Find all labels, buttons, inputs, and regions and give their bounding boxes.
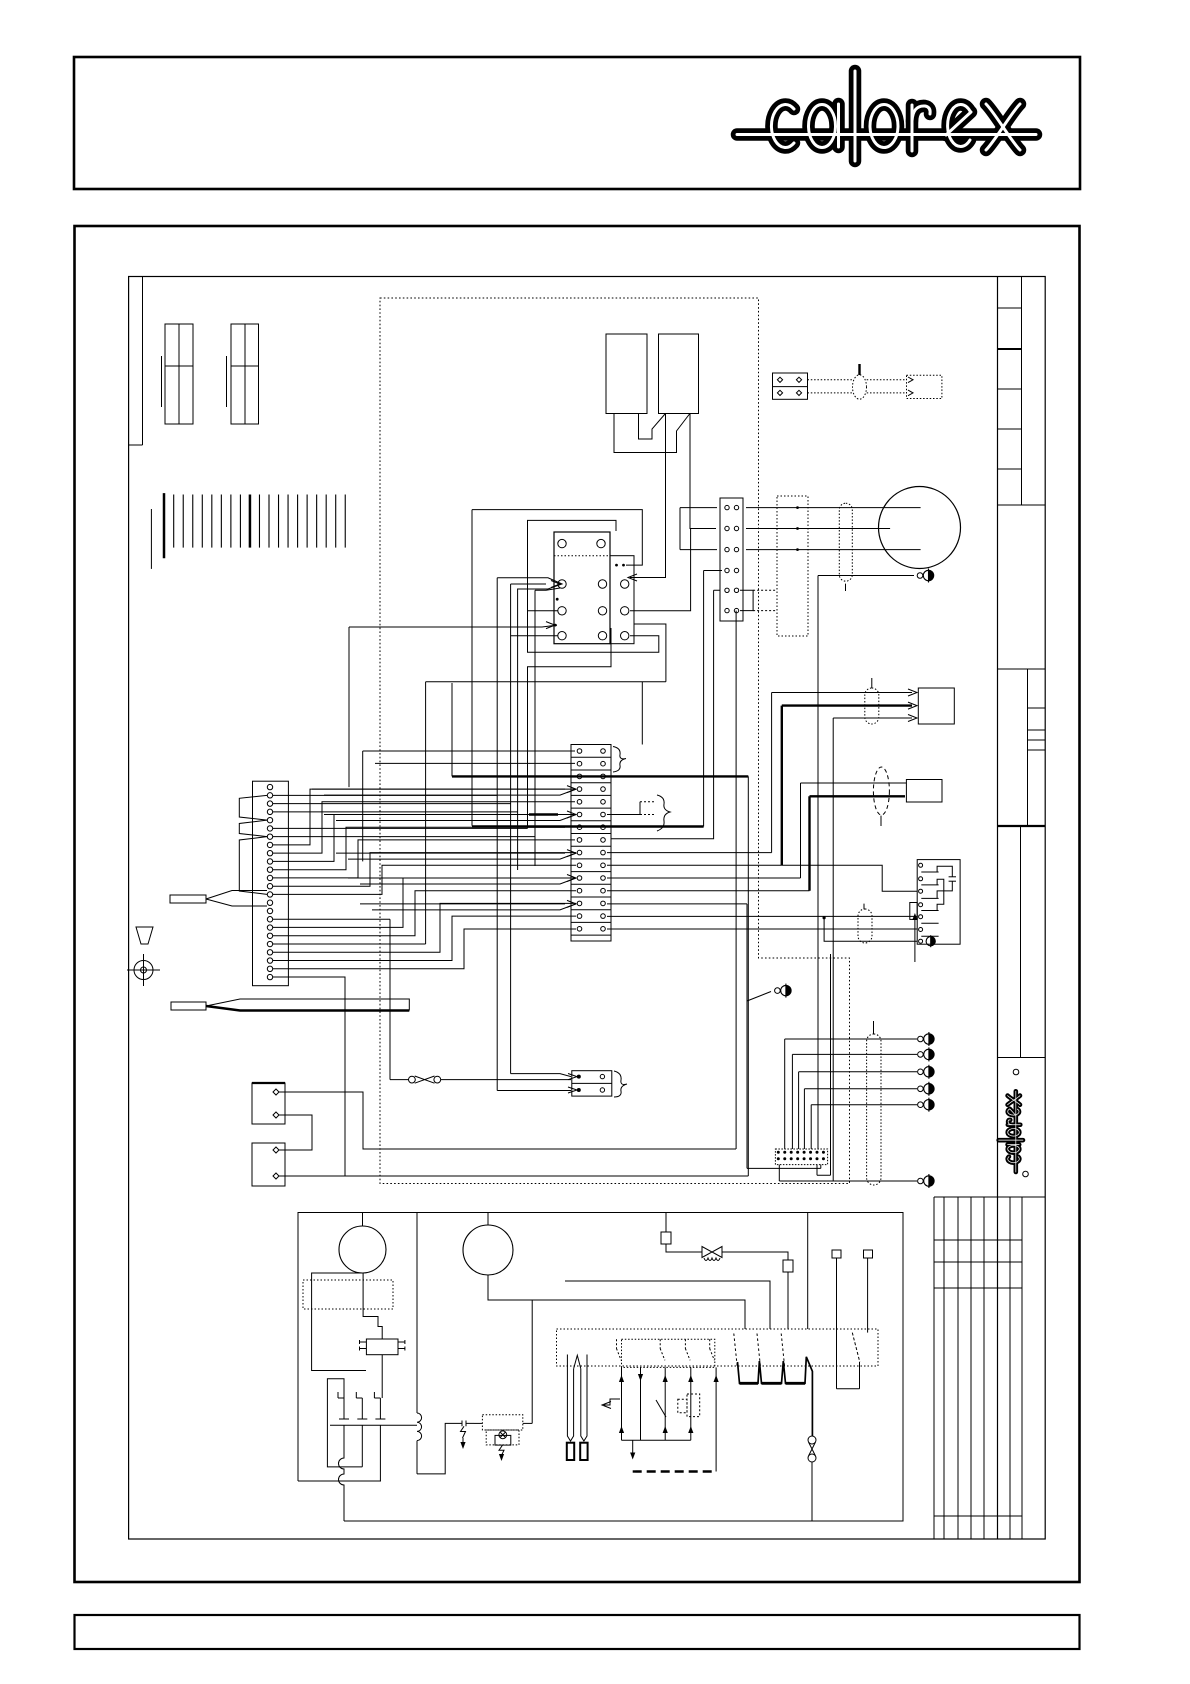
dashed box X5 right bbox=[907, 375, 942, 398]
contact finger dotted slants bbox=[734, 1334, 737, 1367]
fuse F2 vertical bbox=[808, 1436, 816, 1444]
wire JB2 b bbox=[279, 1175, 748, 1177]
wire FM1 to capacitor bbox=[363, 1273, 382, 1340]
main border box bbox=[75, 226, 1080, 1582]
wire motor L3 bbox=[746, 549, 921, 551]
contact finger zigzag bbox=[738, 1357, 813, 1436]
wire C2 right down bbox=[690, 414, 716, 529]
compressor motor M1 bbox=[879, 487, 961, 569]
bold stub row6 bbox=[529, 813, 558, 815]
heater element zigzag bbox=[239, 795, 267, 820]
PS1 up arrow bbox=[914, 916, 916, 962]
run capacitor C3 bbox=[366, 1339, 398, 1355]
wire K1 row4 left bbox=[511, 635, 558, 637]
terminal block X5 bbox=[773, 373, 808, 399]
wire thin top box b bbox=[833, 717, 912, 719]
wire row12 right bbox=[607, 890, 810, 892]
fan motor FM1 bbox=[339, 1226, 386, 1273]
PS1 capacitor chain bbox=[937, 866, 952, 877]
wire K2 left bracket bbox=[327, 1379, 362, 1467]
wire riser to strip top bbox=[425, 682, 427, 944]
PS1 contact bars bbox=[921, 871, 938, 873]
contactor K1 body bbox=[554, 532, 610, 644]
comb end lead bbox=[150, 509, 152, 569]
wire X4 feed1 bbox=[511, 1074, 571, 1077]
PS1 link chain bbox=[937, 879, 944, 910]
brace X4 bbox=[614, 1071, 627, 1097]
control panel dashed enclosure bbox=[380, 298, 850, 1184]
wire K1 row2b bbox=[535, 588, 560, 866]
defrost dotted box bbox=[557, 1329, 879, 1366]
big cable gland G4 bbox=[867, 1034, 881, 1185]
defrost contacts bbox=[616, 1339, 618, 1348]
calorex logo (header) bbox=[737, 71, 1036, 161]
wire outer loop top bbox=[472, 510, 642, 565]
fan motor FM2 bbox=[463, 1225, 513, 1275]
signal lamp LP1 dotted housing bbox=[482, 1415, 522, 1430]
motor earth terminal bbox=[917, 573, 923, 579]
contactor K1 dotted divider bbox=[554, 555, 610, 557]
title block column lines bbox=[997, 277, 999, 1540]
wire motor earth bbox=[818, 576, 914, 1150]
title block tall twin cells bbox=[1020, 826, 1022, 1058]
bold riser to FB1 bbox=[781, 706, 783, 866]
wire fuse feed bbox=[389, 919, 391, 1079]
bold riser to FS1 bbox=[808, 796, 810, 890]
junction box JB2 bbox=[252, 1143, 285, 1186]
fuse F1 bbox=[409, 1076, 416, 1083]
wire motor L2 bbox=[746, 528, 890, 530]
revision table bbox=[933, 1197, 935, 1539]
wire thin top box a bbox=[772, 692, 912, 694]
cable gland G1 bbox=[865, 688, 879, 724]
cable sheath stadium bbox=[839, 503, 852, 581]
wire PS1 bottom row bbox=[824, 918, 917, 942]
wires into defrost box bbox=[565, 1281, 770, 1329]
funnel symbol bbox=[136, 927, 153, 944]
arrow ladder bbox=[621, 1367, 623, 1440]
wire C1 right step bbox=[639, 414, 666, 440]
contactor K1 aux block bbox=[610, 556, 634, 644]
wire X2 down b bbox=[611, 590, 720, 839]
terminal strip X2 bbox=[720, 498, 743, 621]
terminal comb strip bbox=[163, 493, 166, 558]
wire strip right r13 bbox=[607, 915, 917, 917]
transformer T2 bbox=[231, 324, 259, 424]
thermo contact symbol bbox=[604, 1399, 620, 1405]
frame left tab bbox=[142, 277, 144, 446]
wire motor L1 bbox=[746, 507, 921, 509]
wire bundle X3 bbox=[273, 794, 497, 796]
wire row10 right bbox=[607, 864, 782, 866]
wire lamp to branch bbox=[523, 1422, 532, 1424]
contactor K2 poles bbox=[338, 1392, 349, 1441]
dotted block lower bbox=[303, 1280, 393, 1309]
defrost sub box bbox=[622, 1339, 715, 1367]
cable gland G2 dashed bbox=[873, 767, 889, 815]
earth terminal row bbox=[918, 1036, 924, 1042]
header box bbox=[74, 57, 1080, 189]
multipin connector J1 bbox=[775, 1149, 827, 1165]
switch blade S2 bbox=[656, 1400, 666, 1417]
wire left long to K1 bbox=[349, 625, 557, 627]
brace mid with dotted leads bbox=[607, 814, 640, 816]
wire FM2 down bbox=[488, 1275, 745, 1329]
wire X2 row1 left bbox=[680, 508, 717, 550]
wire K2 pole1 drop with hops bbox=[339, 1441, 345, 1521]
descender to connector bbox=[830, 954, 832, 1175]
title block top cell dividers bbox=[998, 307, 1022, 309]
capacitor C2 bbox=[659, 334, 699, 414]
title block bold divider bbox=[998, 825, 1046, 827]
pressure switch PS1 bbox=[917, 860, 960, 945]
wire strip right r13b bbox=[607, 903, 747, 905]
title block small cells bbox=[1027, 669, 1029, 826]
wire K1 bottom exit bbox=[528, 628, 612, 745]
condensate assembly box bbox=[298, 1213, 903, 1522]
expansion valve V1 bbox=[702, 1247, 722, 1258]
bold wire row3 bbox=[452, 775, 748, 777]
wire drop v808 bbox=[807, 1213, 809, 1330]
wire vertical v736 from X2 bbox=[735, 611, 737, 1149]
wire arrows into K1 coil bbox=[497, 578, 562, 870]
wire K1 aux right exit bbox=[630, 529, 691, 611]
wire X2 rows5-6 loop bbox=[740, 590, 753, 610]
earth terminal bottom bbox=[918, 1178, 924, 1184]
down arrow drop bbox=[632, 1440, 634, 1455]
flow switch box FS1 bbox=[906, 780, 942, 803]
calorex logo (vertical, title block) bbox=[999, 1091, 1023, 1172]
wire stubs into strip left bbox=[312, 788, 565, 790]
wire strip right r14 bbox=[607, 928, 917, 930]
wire X2 down a bbox=[704, 570, 722, 572]
earth boss symbol bbox=[134, 961, 153, 980]
lamp thermal tail bbox=[499, 1445, 504, 1456]
contactor K1 terminals bbox=[558, 539, 566, 547]
sensor probe P1 bbox=[170, 895, 206, 903]
earth stub diag bbox=[775, 988, 781, 994]
dashed leads X5 bbox=[808, 379, 854, 381]
probe bulbs bbox=[567, 1443, 574, 1460]
wire C2 to relay bbox=[630, 414, 666, 578]
title block logo circles bbox=[1013, 1069, 1019, 1075]
wire JB1 a bbox=[279, 1092, 736, 1149]
junction box JB1 bbox=[252, 1083, 285, 1124]
wire C1 bottom loop bbox=[614, 414, 690, 453]
sensor probe P2 (long) bbox=[171, 1002, 206, 1010]
choke coil L5 bbox=[417, 1213, 422, 1474]
terminal strip X1 bbox=[571, 745, 611, 942]
capacitor C1 bbox=[606, 334, 647, 414]
wire K2 pole3 to box bottom bbox=[379, 1441, 381, 1481]
wire row11 right bbox=[607, 877, 801, 879]
terminal strip X3 (left) bbox=[253, 781, 289, 986]
lamp body bbox=[495, 1435, 511, 1445]
wire X4 feed2 bbox=[497, 1090, 571, 1092]
wire strip row1 left bbox=[363, 750, 575, 752]
aux squares right bbox=[832, 1250, 841, 1258]
thermal cutout TC1 bbox=[459, 1421, 474, 1427]
terminal block X4 bbox=[572, 1071, 612, 1096]
wire JB1 b bbox=[279, 1115, 312, 1150]
wire outer loop left bbox=[471, 510, 473, 826]
wire into lamp box bbox=[474, 1422, 482, 1424]
wire cap down bbox=[381, 1355, 383, 1398]
bold dashed link bbox=[633, 1470, 716, 1472]
inner drawing frame bbox=[129, 277, 1046, 1540]
footer box bbox=[75, 1615, 1080, 1649]
junction dots bbox=[615, 564, 618, 567]
wire inner loop bbox=[528, 520, 659, 652]
PS1 side tap box bbox=[910, 903, 917, 920]
wire X2 dashed stubs bbox=[753, 589, 776, 591]
dashed aux box bbox=[678, 1399, 687, 1413]
PS1 earth dot bbox=[926, 937, 935, 946]
fan junction box FB1 bbox=[918, 688, 954, 724]
wire lamp branch bbox=[531, 1300, 533, 1423]
wire FM1 left loop bbox=[312, 1273, 366, 1371]
wire K1 row3 bbox=[528, 610, 559, 612]
wire into FS1 thin bbox=[801, 782, 907, 784]
temp probes bbox=[567, 1355, 573, 1442]
transformer T1 bbox=[165, 324, 193, 424]
wire strip row2 left bbox=[375, 762, 575, 764]
wire X2 row3 left bbox=[680, 549, 717, 551]
defrost right contact bbox=[836, 1258, 838, 1389]
connector bottom bus bbox=[747, 1165, 821, 1169]
probe series link bbox=[574, 1355, 581, 1368]
title block divider row bbox=[998, 504, 1046, 506]
wire aux lower right bbox=[634, 624, 666, 682]
brace rows 1-2 bbox=[613, 747, 626, 773]
grommet ellipse bbox=[853, 375, 867, 399]
dashed junction column bbox=[777, 496, 808, 636]
title block section divider bbox=[998, 668, 1046, 670]
wire coil to thermal switch bbox=[417, 1423, 459, 1474]
solenoid branch bbox=[665, 1213, 667, 1233]
bold wire row7 bbox=[472, 825, 704, 827]
wire step into PS1 bbox=[782, 865, 917, 891]
cable gland G3 bbox=[858, 909, 872, 943]
